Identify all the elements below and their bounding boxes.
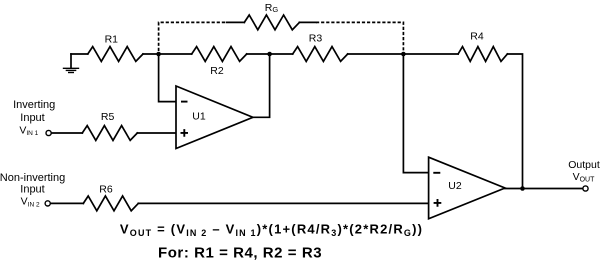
svg-text:Output: Output (568, 159, 600, 171)
svg-text:R1: R1 (105, 34, 119, 46)
svg-text:R3: R3 (309, 33, 323, 45)
svg-text:For: R1 = R4, R2 = R3: For: R1 = R4, R2 = R3 (158, 244, 322, 261)
svg-text:R4: R4 (470, 31, 484, 43)
svg-text:Non-inverting: Non-inverting (0, 172, 65, 184)
svg-text:U1: U1 (192, 111, 206, 123)
svg-text:R5: R5 (101, 111, 115, 123)
svg-text:Inverting: Inverting (13, 99, 55, 111)
svg-text:Input: Input (20, 184, 44, 196)
svg-text:VOUT = (VIN 2 – VIN 1)*(1+(R4/: VOUT = (VIN 2 – VIN 1)*(1+(R4/R3)*(2*R2/… (120, 221, 423, 238)
svg-text:R6: R6 (99, 184, 113, 196)
svg-text:U2: U2 (448, 180, 462, 192)
svg-text:R2: R2 (210, 65, 224, 77)
svg-text:Input: Input (20, 112, 44, 124)
